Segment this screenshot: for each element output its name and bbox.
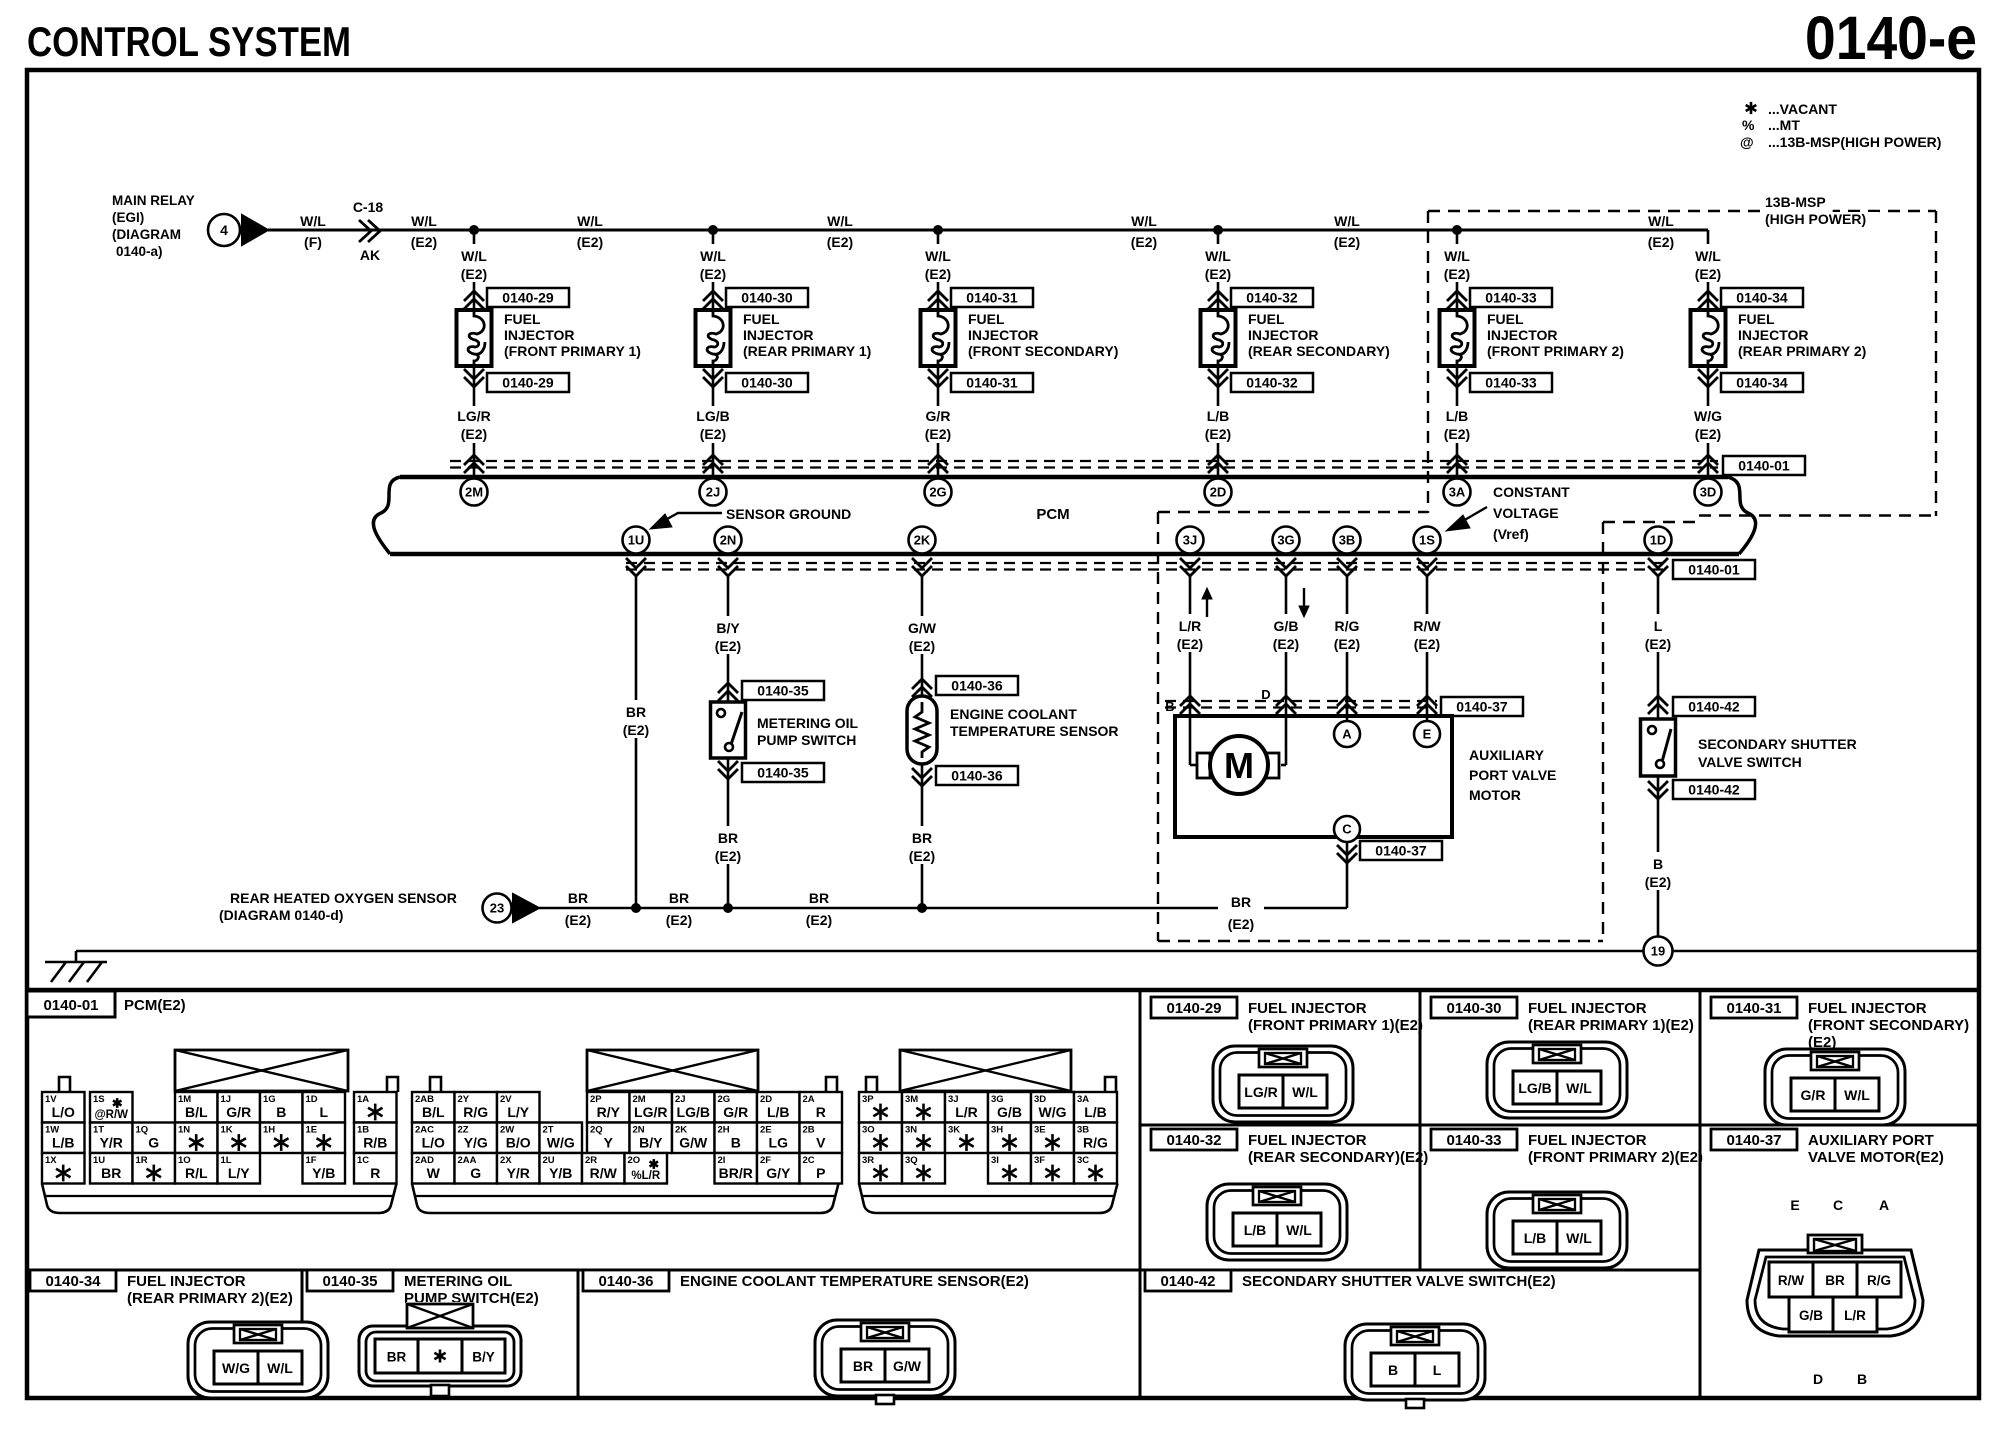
connector symbol 0140-33 top [1447, 291, 1467, 309]
svg-text:W/L: W/L [577, 213, 603, 229]
svg-text:B/O: B/O [506, 1135, 531, 1151]
wire inside motor box from pin B [1189, 716, 1192, 765]
connector symbol 0140-30 top [703, 291, 723, 309]
svg-text:(REAR PRIMARY 2)(E2): (REAR PRIMARY 2)(E2) [127, 1290, 293, 1307]
wire L/R from pin 3J [1189, 576, 1192, 716]
connector symbol 0140-32 bottom [1208, 369, 1228, 387]
connector symbol 0140-29 top [464, 291, 484, 309]
dashed box auxiliary port valve motor assembly [1158, 511, 1428, 513]
legend vacant [1750, 102, 1753, 114]
wire W/L drop to fuel injector (REAR SECONDARY) [1217, 230, 1220, 477]
connector symbol 0140-01 for pin 2G [928, 455, 948, 473]
svg-text:3R: 3R [862, 1155, 874, 1166]
svg-text:L: L [1654, 618, 1663, 634]
wire label LG/R (E2) [448, 406, 500, 443]
svg-text:LG/R: LG/R [457, 408, 490, 424]
PCM pin 2M [461, 479, 488, 506]
svg-text:B/L: B/L [422, 1104, 445, 1120]
svg-text:R/G: R/G [1083, 1135, 1108, 1151]
svg-text:0140-32: 0140-32 [1246, 375, 1298, 391]
PCM pin 2D [1205, 479, 1232, 506]
svg-text:B: B [731, 1135, 741, 1151]
connector symbol 0140-01 for pin 2M [464, 455, 484, 473]
svg-text:(FRONT PRIMARY 1): (FRONT PRIMARY 1) [504, 343, 641, 359]
svg-text:(E2): (E2) [565, 912, 591, 928]
svg-text:0140-33: 0140-33 [1485, 375, 1537, 391]
svg-text:3B: 3B [1339, 533, 1356, 548]
svg-text:2A: 2A [803, 1094, 815, 1105]
connector symbol 0140-31 top [928, 291, 948, 309]
svg-text:FUEL: FUEL [1738, 311, 1775, 327]
svg-text:0140-42: 0140-42 [1688, 782, 1740, 798]
svg-text:METERING OIL: METERING OIL [757, 715, 859, 731]
svg-text:LG/B: LG/B [677, 1104, 710, 1120]
svg-text:L/R: L/R [1179, 618, 1202, 634]
svg-text:(E2): (E2) [1205, 266, 1231, 282]
connector 0140-37 auxiliary port valve motor [1711, 1129, 1797, 1150]
svg-text:23: 23 [490, 901, 504, 916]
svg-text:B: B [1653, 856, 1663, 872]
svg-text:FUEL INJECTOR: FUEL INJECTOR [1528, 1132, 1647, 1149]
svg-text:INJECTOR: INJECTOR [504, 327, 575, 343]
svg-text:P: P [816, 1165, 825, 1181]
fuel injector FUEL INJECTOR (REAR PRIMARY 2) [1691, 310, 1726, 366]
svg-text:(REAR PRIMARY 1): (REAR PRIMARY 1) [743, 343, 871, 359]
svg-text:0140-36: 0140-36 [951, 678, 1003, 694]
svg-text:C: C [1833, 1197, 1843, 1213]
svg-text:W/L: W/L [1292, 1084, 1318, 1100]
connector symbol 0140-37 pin C [1337, 845, 1357, 863]
svg-text:B/Y: B/Y [716, 620, 740, 636]
svg-text:AUXILIARY: AUXILIARY [1469, 747, 1545, 763]
svg-text:W/L: W/L [827, 213, 853, 229]
svg-text:G/W: G/W [679, 1135, 708, 1151]
wire W/L drop to fuel injector (FRONT PRIMARY 2) [1456, 230, 1459, 477]
PCM pin 3J [1177, 527, 1204, 554]
svg-text:19: 19 [1651, 944, 1665, 959]
svg-text:(E2): (E2) [700, 266, 726, 282]
wire BR from metering oil pump switch [727, 758, 730, 908]
svg-text:R: R [370, 1165, 380, 1181]
svg-text:(E2): (E2) [1334, 234, 1360, 250]
PCM pin 2K [909, 527, 936, 554]
svg-text:(E2): (E2) [411, 234, 437, 250]
svg-text:PCM: PCM [1036, 506, 1069, 523]
svg-text:3F: 3F [1034, 1155, 1045, 1166]
svg-text:W/L: W/L [925, 248, 951, 264]
connector 0140-29 fuel injector front primary 1 [1151, 997, 1237, 1018]
svg-text:@: @ [1740, 134, 1754, 150]
direction arrow down [1303, 588, 1305, 613]
svg-text:E: E [1423, 727, 1432, 742]
svg-text:2M: 2M [465, 485, 483, 500]
svg-text:R/Y: R/Y [597, 1104, 621, 1120]
svg-text:B: B [276, 1104, 286, 1120]
svg-text:BR: BR [809, 890, 829, 906]
svg-text:D: D [1261, 687, 1270, 702]
PCM pin 2J [700, 479, 727, 506]
svg-text:(E2): (E2) [577, 234, 603, 250]
wire label G/R (E2) [912, 406, 964, 443]
svg-text:(E2): (E2) [909, 848, 935, 864]
svg-text:R/B: R/B [363, 1135, 387, 1151]
PCM connector block 2 tray [412, 1184, 839, 1214]
connector 0140-32 fuel injector rear secondary [1151, 1129, 1237, 1150]
svg-text:(FRONT SECONDARY): (FRONT SECONDARY) [968, 343, 1118, 359]
svg-text:1U: 1U [628, 533, 645, 548]
svg-text:1S: 1S [1419, 533, 1435, 548]
svg-text:BR: BR [912, 830, 932, 846]
svg-text:R/W: R/W [1778, 1273, 1805, 1288]
svg-text:3D: 3D [1700, 485, 1717, 500]
connector symbol 0140-34 bottom [1698, 369, 1718, 387]
svg-text:W/L: W/L [1131, 213, 1157, 229]
svg-text:(E2): (E2) [1334, 636, 1360, 652]
svg-text:B: B [1857, 1371, 1867, 1387]
svg-text:(E2): (E2) [909, 638, 935, 654]
svg-text:W/L: W/L [1334, 213, 1360, 229]
svg-text:L: L [1433, 1362, 1442, 1378]
svg-text:0140-34: 0140-34 [45, 1273, 101, 1290]
svg-text:VOLTAGE: VOLTAGE [1493, 505, 1559, 521]
connector table frame [27, 988, 1979, 993]
svg-text:B: B [1388, 1362, 1398, 1378]
svg-text:0140-a): 0140-a) [116, 244, 163, 259]
svg-text:0140-29: 0140-29 [1166, 1000, 1221, 1017]
svg-text:B/L: B/L [185, 1104, 208, 1120]
svg-text:(E2): (E2) [827, 234, 853, 250]
svg-text:(DIAGRAM: (DIAGRAM [112, 227, 181, 242]
svg-text:G/R: G/R [723, 1104, 748, 1120]
svg-text:0140-35: 0140-35 [322, 1273, 377, 1290]
svg-text:(E2): (E2) [1695, 426, 1721, 442]
connector symbol 0140-31 bottom [928, 369, 948, 387]
connector symbol 0140-30 bottom [703, 369, 723, 387]
svg-text:@R/W: @R/W [94, 1109, 128, 1121]
connector symbol 0140-32 top [1208, 291, 1228, 309]
svg-text:3J: 3J [1183, 533, 1197, 548]
svg-text:R/G: R/G [1335, 618, 1360, 634]
svg-text:PCM(E2): PCM(E2) [124, 997, 186, 1014]
svg-text:(E2): (E2) [925, 426, 951, 442]
connector symbol 0140-01 for pin 3B [1337, 558, 1357, 576]
svg-text:(E2): (E2) [666, 912, 692, 928]
connector symbol 0140-37 pin D [1276, 696, 1296, 714]
svg-text:C: C [1342, 822, 1352, 837]
svg-text:CONSTANT: CONSTANT [1493, 484, 1570, 500]
svg-text:AK: AK [360, 247, 380, 263]
svg-text:(REAR SECONDARY)(E2): (REAR SECONDARY)(E2) [1248, 1149, 1428, 1166]
svg-text:0140-37: 0140-37 [1375, 843, 1427, 859]
svg-text:(E2): (E2) [1205, 426, 1231, 442]
connector 0140-34 fuel injector rear primary 2 [30, 1270, 116, 1291]
connector symbol 0140-42 bottom [1648, 781, 1668, 799]
svg-text:L/B: L/B [1524, 1230, 1547, 1246]
svg-text:INJECTOR: INJECTOR [743, 327, 814, 343]
secondary shutter valve switch [1641, 719, 1676, 776]
svg-text:ENGINE COOLANT: ENGINE COOLANT [950, 706, 1077, 722]
svg-text:3C: 3C [1077, 1155, 1089, 1166]
connector symbol 0140-01 for pin 1S [1417, 558, 1437, 576]
svg-text:FUEL INJECTOR: FUEL INJECTOR [1528, 1000, 1647, 1017]
svg-text:(E2): (E2) [1177, 636, 1203, 652]
fuel injector FUEL INJECTOR (REAR SECONDARY) [1201, 310, 1236, 366]
svg-text:0140-32: 0140-32 [1166, 1132, 1221, 1149]
svg-text:G/R: G/R [1801, 1087, 1826, 1103]
label CONSTANT VOLTAGE (Vref) with arrow to pin 1S [1491, 485, 1570, 503]
svg-text:0140-37: 0140-37 [1726, 1132, 1781, 1149]
svg-text:W/L: W/L [411, 213, 437, 229]
svg-text:FUEL INJECTOR: FUEL INJECTOR [1248, 1132, 1367, 1149]
svg-text:0140-42: 0140-42 [1160, 1273, 1215, 1290]
svg-text:0140-29: 0140-29 [502, 290, 554, 306]
fuel injector FUEL INJECTOR (FRONT PRIMARY 1) [457, 310, 492, 366]
svg-text:INJECTOR: INJECTOR [1248, 327, 1319, 343]
svg-text:3E: 3E [1034, 1125, 1046, 1136]
svg-text:3O: 3O [862, 1125, 875, 1136]
svg-text:3Q: 3Q [905, 1155, 918, 1166]
svg-text:0140-31: 0140-31 [966, 290, 1018, 306]
svg-text:L/B: L/B [1084, 1104, 1107, 1120]
svg-text:W/L: W/L [700, 248, 726, 264]
svg-text:L/O: L/O [422, 1135, 445, 1151]
motor terminal C [1334, 816, 1360, 842]
svg-text:L/Y: L/Y [228, 1165, 250, 1181]
svg-text:L/B: L/B [52, 1135, 75, 1151]
connector symbol 0140-29 bottom [464, 369, 484, 387]
svg-text:(E2): (E2) [715, 638, 741, 654]
connector symbol 0140-36 top [912, 679, 932, 697]
svg-text:1D: 1D [306, 1094, 318, 1105]
wire G/B from pin 3G [1285, 576, 1288, 716]
svg-text:R/W: R/W [1413, 618, 1441, 634]
svg-text:Y/R: Y/R [100, 1135, 123, 1151]
svg-text:1K: 1K [221, 1125, 233, 1136]
connector symbol 0140-33 bottom [1447, 369, 1467, 387]
svg-text:W: W [427, 1165, 441, 1181]
svg-text:0140-30: 0140-30 [741, 375, 793, 391]
PCM left break squiggle [373, 477, 400, 554]
svg-text:3N: 3N [905, 1125, 917, 1136]
svg-text:FUEL: FUEL [743, 311, 780, 327]
svg-text:W/G: W/G [1039, 1104, 1067, 1120]
svg-text:MOTOR: MOTOR [1469, 787, 1521, 803]
svg-text:R/G: R/G [463, 1104, 488, 1120]
svg-text:G: G [148, 1135, 159, 1151]
svg-text:0140-32: 0140-32 [1246, 290, 1298, 306]
svg-text:(E2): (E2) [1645, 874, 1671, 890]
connector 0140-31 fuel injector front secondary [1711, 997, 1797, 1018]
svg-text:1H: 1H [263, 1125, 275, 1136]
svg-text:FUEL INJECTOR: FUEL INJECTOR [127, 1273, 246, 1290]
PCM pin 3A [1444, 479, 1471, 506]
svg-text:0140-42: 0140-42 [1688, 699, 1740, 715]
svg-text:(REAR PRIMARY 2): (REAR PRIMARY 2) [1738, 343, 1866, 359]
dashed connector line 0140-37 [1165, 700, 1437, 702]
wire W/L drop to fuel injector (FRONT SECONDARY) [937, 230, 940, 477]
svg-text:(DIAGRAM 0140-d): (DIAGRAM 0140-d) [219, 907, 343, 923]
svg-text:Y/R: Y/R [507, 1165, 530, 1181]
svg-text:13B-MSP: 13B-MSP [1765, 194, 1826, 210]
svg-text:L/O: L/O [52, 1104, 75, 1120]
svg-text:R: R [816, 1104, 826, 1120]
PCM pin 3D [1695, 479, 1722, 506]
connector symbol 0140-01 for pin 1U [626, 558, 646, 576]
svg-text:CONTROL SYSTEM: CONTROL SYSTEM [27, 18, 351, 65]
svg-text:0140-35: 0140-35 [757, 765, 809, 781]
PCM right break squiggle [1728, 477, 1756, 554]
ground symbol [75, 951, 78, 962]
PCM connector block 1 pins [42, 1092, 85, 1123]
svg-text:(E2): (E2) [700, 426, 726, 442]
svg-text:1C: 1C [357, 1155, 369, 1166]
svg-text:%L/R: %L/R [631, 1170, 660, 1182]
svg-text:G: G [470, 1165, 481, 1181]
wire W/L drop to fuel injector (REAR PRIMARY 1) [712, 230, 715, 477]
wire B/Y from pin 2N [727, 576, 730, 702]
PCM pin 1S [1414, 527, 1441, 554]
svg-text:L/Y: L/Y [507, 1104, 529, 1120]
svg-text:FUEL: FUEL [968, 311, 1005, 327]
svg-text:3H: 3H [991, 1125, 1003, 1136]
label 0140-01 bottom [1673, 560, 1755, 579]
wire BR from engine coolant temperature sensor [921, 764, 924, 908]
ground bus line [76, 950, 1644, 953]
wire L from pin 1D [1657, 576, 1660, 719]
svg-text:W/G: W/G [1694, 408, 1722, 424]
svg-text:1A: 1A [357, 1094, 369, 1105]
direction arrow up [1206, 592, 1208, 617]
svg-text:(E2): (E2) [925, 266, 951, 282]
wire label LG/B (E2) [687, 406, 739, 443]
svg-text:(E2): (E2) [1444, 266, 1470, 282]
svg-text:B: B [1165, 699, 1174, 714]
PCM connector block 3 hood [900, 1050, 1071, 1091]
svg-text:BR: BR [1231, 894, 1251, 910]
svg-text:W/L: W/L [1566, 1080, 1592, 1096]
svg-text:(FRONT PRIMARY 2)(E2): (FRONT PRIMARY 2)(E2) [1528, 1149, 1703, 1166]
wire inside motor box from pin D [1285, 716, 1288, 765]
svg-text:E: E [1790, 1197, 1799, 1213]
wire R/W from pin 1S [1426, 576, 1429, 721]
svg-text:2Q: 2Q [590, 1125, 603, 1136]
svg-text:BR: BR [669, 890, 689, 906]
svg-text:A: A [1879, 1197, 1889, 1213]
svg-text:...MT: ...MT [1768, 117, 1800, 133]
svg-text:2H: 2H [718, 1125, 730, 1136]
svg-text:B/Y: B/Y [639, 1135, 663, 1151]
svg-text:INJECTOR: INJECTOR [1487, 327, 1558, 343]
svg-text:AUXILIARY PORT: AUXILIARY PORT [1808, 1132, 1934, 1149]
svg-text:W/L: W/L [1844, 1087, 1870, 1103]
svg-text:(EGI): (EGI) [112, 210, 144, 225]
svg-text:3P: 3P [862, 1094, 874, 1105]
wire BR rear heated oxygen sensor line [539, 907, 1347, 910]
svg-text:L/B: L/B [1446, 408, 1469, 424]
svg-text:1G: 1G [263, 1094, 276, 1105]
svg-text:Y/G: Y/G [464, 1135, 488, 1151]
svg-text:BR: BR [626, 704, 646, 720]
svg-text:0140-31: 0140-31 [1726, 1000, 1781, 1017]
svg-text:W/L: W/L [1444, 248, 1470, 264]
svg-text:PORT VALVE: PORT VALVE [1469, 767, 1556, 783]
svg-text:W/L: W/L [1695, 248, 1721, 264]
svg-text:LG/B: LG/B [1518, 1080, 1551, 1096]
connector symbol 0140-35 bottom [718, 761, 738, 779]
svg-text:MAIN RELAY: MAIN RELAY [112, 193, 195, 208]
svg-text:0140-01: 0140-01 [1738, 458, 1790, 474]
dashed box 13B-MSP (HIGH POWER) [1428, 210, 1936, 212]
svg-text:VALVE SWITCH: VALVE SWITCH [1698, 754, 1802, 770]
PCM connector block 1 tray [42, 1184, 397, 1214]
svg-text:Y/B: Y/B [312, 1165, 335, 1181]
fuel injector FUEL INJECTOR (FRONT PRIMARY 2) [1440, 310, 1475, 366]
connector symbol 0140-01 for pin 3G [1276, 558, 1296, 576]
svg-text:LG/B: LG/B [696, 408, 729, 424]
svg-text:SECONDARY SHUTTER: SECONDARY SHUTTER [1698, 736, 1857, 752]
connector symbol 0140-01 for pin 2J [703, 455, 723, 473]
PCM pin 2G [925, 479, 952, 506]
svg-text:0140-36: 0140-36 [951, 768, 1003, 784]
svg-text:(E2): (E2) [1648, 234, 1674, 250]
connector symbols 0140-37 pins A and E [1337, 696, 1357, 714]
connector symbol 0140-01 for pin 2D [1208, 455, 1228, 473]
svg-text:G/R: G/R [926, 408, 951, 424]
svg-text:C-18: C-18 [353, 199, 384, 215]
svg-text:(E2): (E2) [1228, 916, 1254, 932]
svg-text:(E2): (E2) [715, 848, 741, 864]
wire W/L drop to fuel injector (FRONT PRIMARY 1) [473, 230, 476, 477]
svg-text:(E2): (E2) [1131, 234, 1157, 250]
wire R/G from pin 3B [1346, 576, 1349, 721]
auxiliary port valve motor box [1175, 716, 1452, 837]
svg-text:FUEL: FUEL [504, 311, 541, 327]
svg-text:G/Y: G/Y [766, 1165, 791, 1181]
connector symbol 0140-01 for pin 2N [718, 558, 738, 576]
svg-text:0140-37: 0140-37 [1456, 699, 1508, 715]
PCM connector block 2 hood [587, 1050, 758, 1091]
svg-text:0140-e: 0140-e [1805, 4, 1977, 72]
svg-text:0140-31: 0140-31 [966, 375, 1018, 391]
metering oil pump switch [711, 702, 746, 758]
svg-text:V: V [816, 1135, 826, 1151]
svg-text:0140-30: 0140-30 [1446, 1000, 1501, 1017]
connector symbol 0140-42 top [1648, 696, 1668, 714]
connector 0140-01 PCM(E2) header [27, 991, 115, 1017]
PCM pin 1D [1645, 527, 1672, 554]
svg-text:0140-34: 0140-34 [1736, 375, 1788, 391]
label 0140-37 top [1441, 697, 1523, 716]
connector symbol 0140-01 for pin 3J [1180, 558, 1200, 576]
svg-text:G/W: G/W [893, 1358, 922, 1374]
svg-text:3A: 3A [1449, 485, 1466, 500]
wire label L/B (E2) [1431, 406, 1483, 443]
wire label W/G (E2) [1682, 406, 1734, 443]
svg-text:LG/R: LG/R [634, 1104, 667, 1120]
svg-text:ENGINE COOLANT TEMPERATURE SEN: ENGINE COOLANT TEMPERATURE SENSOR(E2) [680, 1273, 1029, 1290]
svg-text:(E2): (E2) [461, 426, 487, 442]
svg-text:(REAR PRIMARY 1)(E2): (REAR PRIMARY 1)(E2) [1528, 1017, 1694, 1034]
svg-text:L/B: L/B [1244, 1222, 1267, 1238]
svg-text:2K: 2K [914, 533, 931, 548]
svg-text:(Vref): (Vref) [1493, 526, 1529, 542]
PCM connector block 1 hood [175, 1050, 348, 1091]
svg-text:(E2): (E2) [1444, 426, 1470, 442]
svg-text:...VACANT: ...VACANT [1768, 101, 1837, 117]
svg-text:(E2): (E2) [1273, 636, 1299, 652]
svg-text:0140-33: 0140-33 [1446, 1132, 1501, 1149]
svg-text:L/R: L/R [1844, 1308, 1866, 1323]
